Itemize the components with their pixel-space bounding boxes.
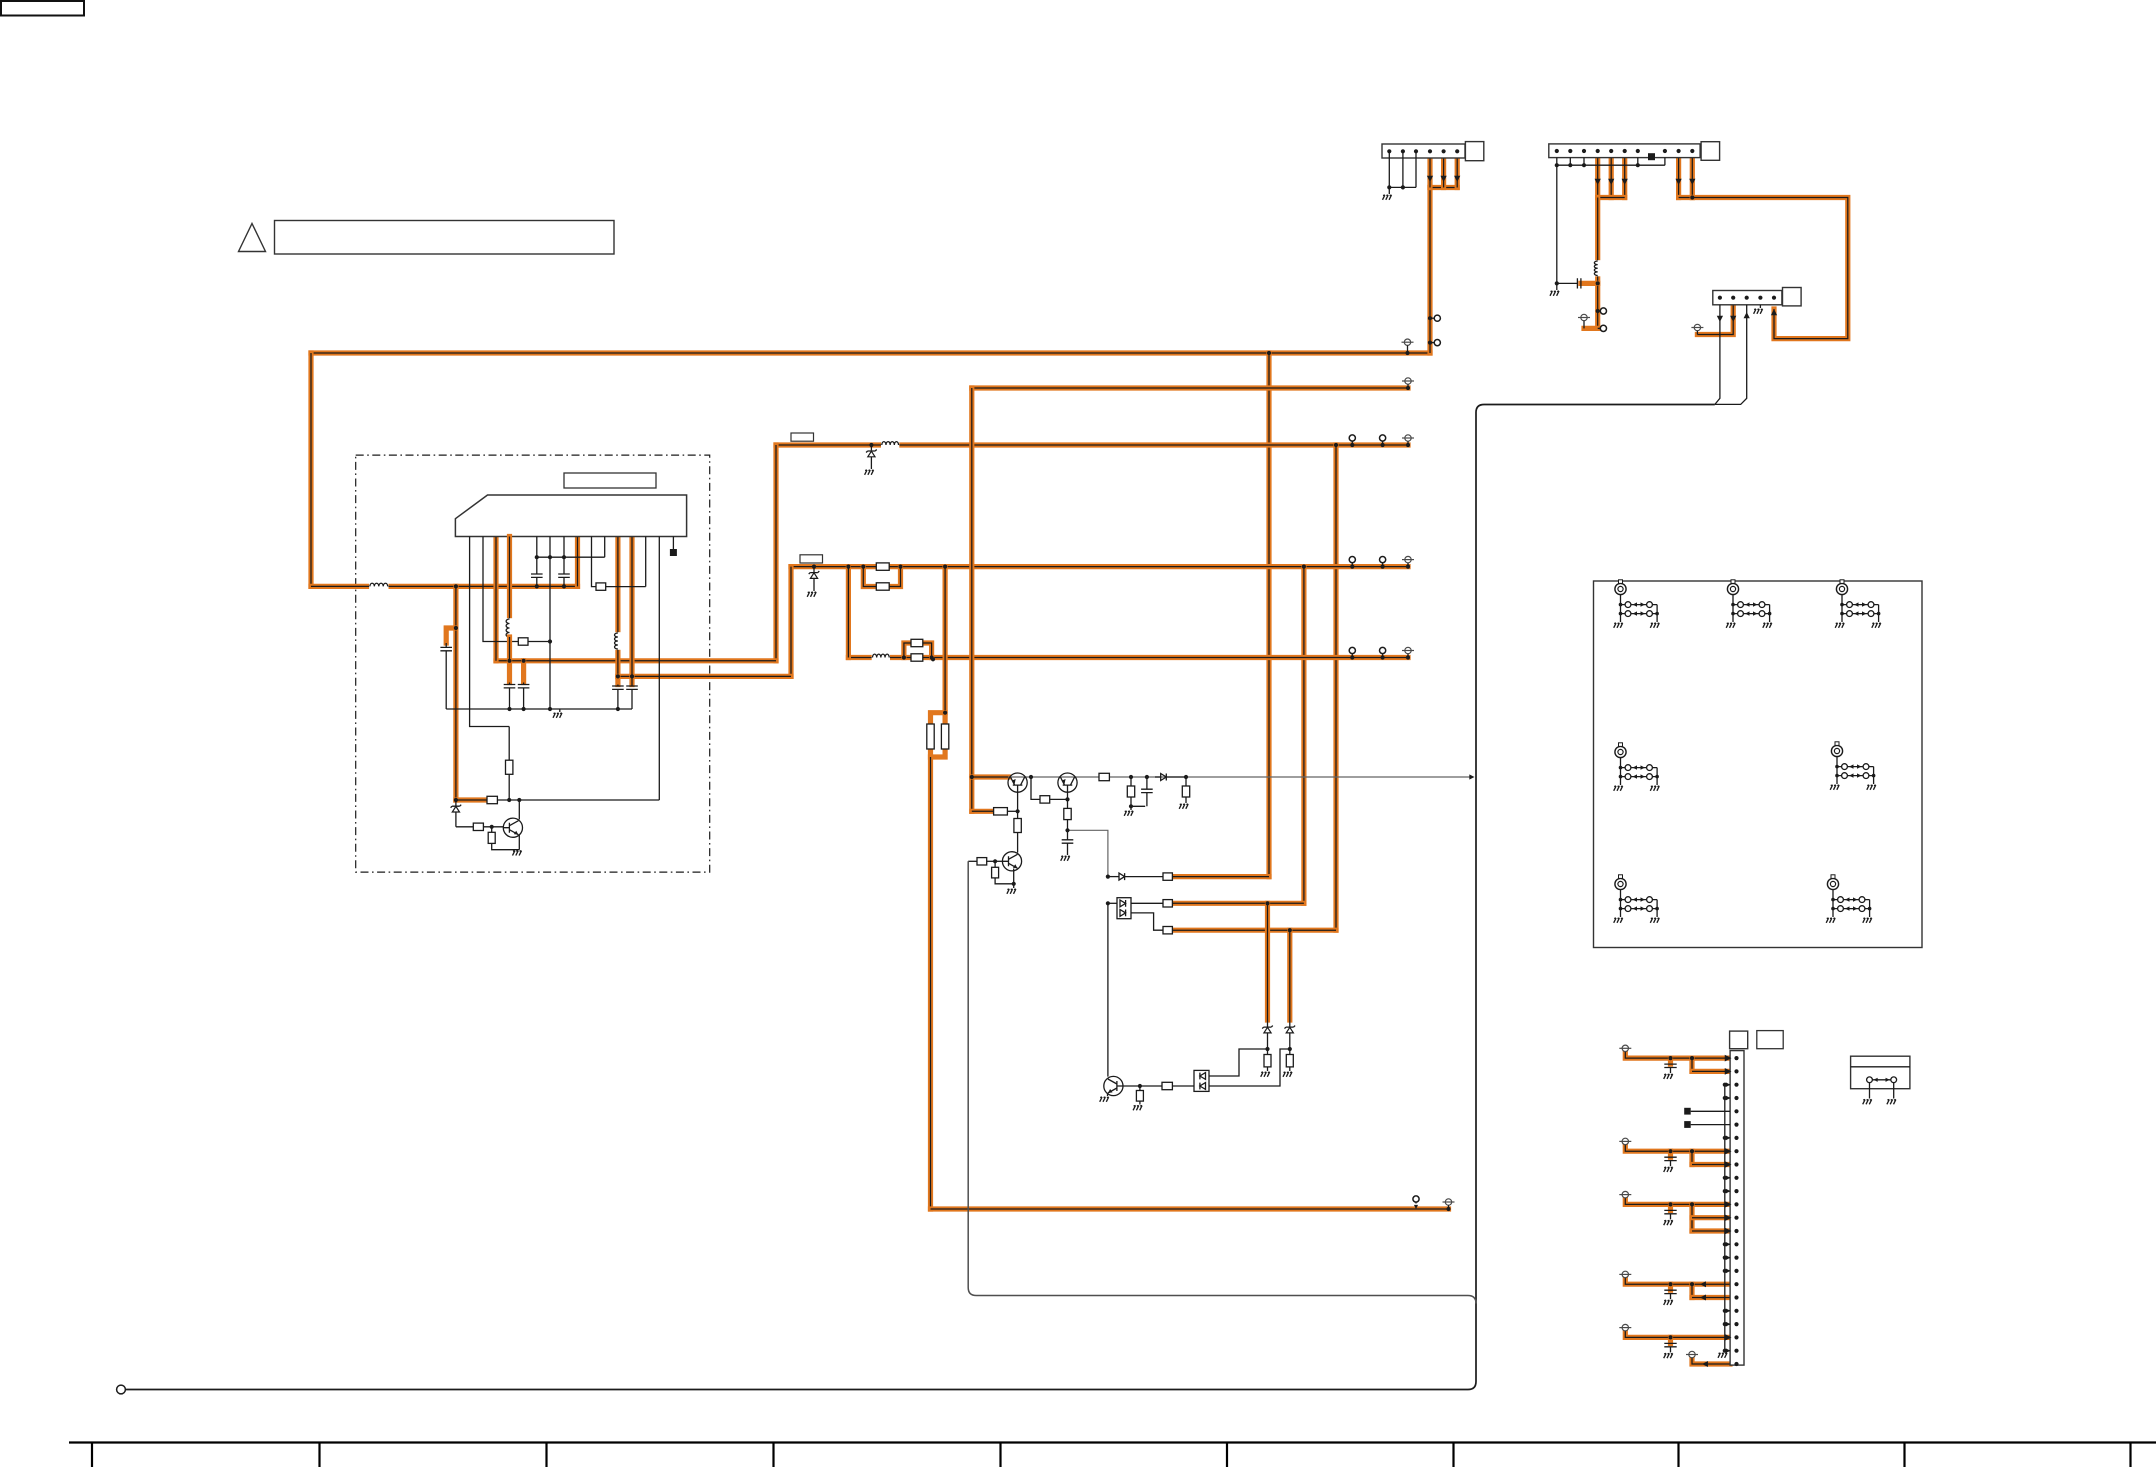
- cap C-b1: [617, 685, 619, 687]
- wire CN4 group4 cap stub: [1668, 1284, 1673, 1290]
- IC pin9 wire: [592, 537, 597, 587]
- transistor Q5: [1002, 852, 1021, 871]
- bottom title-block ticks: [92, 1443, 2131, 1467]
- resistor R-z2: [1289, 1049, 1291, 1055]
- resistor R-s2: [1163, 900, 1172, 907]
- wire CN4 group3 cap stub: [1668, 1204, 1673, 1210]
- wire stub3 resistor link: [1172, 928, 1336, 933]
- dashed outline of regulator module: [356, 455, 710, 872]
- wire CN4 group2 stub: [1692, 1162, 1730, 1167]
- IC pin4 wire: [507, 537, 512, 620]
- wire net A left drop: [773, 445, 778, 661]
- resistor R-e1: [994, 808, 1008, 815]
- Q2 vert: [1067, 792, 1069, 808]
- cap C-q: [445, 643, 447, 647]
- resistor R-r2: [1130, 777, 1132, 786]
- CN4 group1 branch dot: [1690, 1056, 1694, 1060]
- CN4 group3 arrows: [1725, 1201, 1732, 1208]
- wire stub2 zener drop x1267: [1265, 903, 1270, 1020]
- wire module Q branch jog: [446, 628, 456, 643]
- cap C-b2: [631, 685, 633, 687]
- IC pin14 wire: [658, 537, 660, 801]
- phono jack J5: [1830, 742, 1876, 790]
- zener D-q: [455, 800, 457, 806]
- transistor Q1: [1008, 773, 1027, 792]
- resistor R-q4b: [1139, 1086, 1141, 1091]
- CN3 pin dots: [1718, 296, 1722, 300]
- wire CN2 456 bus: [1598, 195, 1625, 200]
- CN4 group3 branch dot: [1690, 1202, 1694, 1206]
- R-C2 parallel loop: [904, 643, 932, 658]
- wire CN2 pin4 stub: [1595, 158, 1600, 198]
- wire net C main: [848, 655, 1408, 660]
- CN4 group2 arrows: [1725, 1148, 1732, 1155]
- CN2 pin dots: [1555, 149, 1559, 153]
- zener D-A: [870, 445, 872, 450]
- dd1 top out: [1131, 902, 1163, 904]
- CN1 pin dots: [1387, 149, 1391, 153]
- resistor R-q5b: [977, 858, 987, 865]
- CN4 group3 cap: [1668, 1202, 1672, 1206]
- wire IC pin11 orange: [615, 537, 620, 677]
- wire CN2 pin5 stub: [1609, 158, 1614, 198]
- wire CN4 group1 branch: [1689, 1058, 1694, 1071]
- CN4 group1 arrows: [1725, 1055, 1732, 1062]
- CN4 pin dots: [1734, 1056, 1738, 1060]
- coil L-A: [881, 441, 899, 449]
- CN3 pin4 ground: [1759, 305, 1761, 308]
- CN1 gnd pins: [1389, 151, 1416, 187]
- IC pin1 wire: [470, 537, 510, 727]
- SW1 contacts: [1867, 1077, 1873, 1083]
- Q1 vert: [1017, 792, 1019, 818]
- wire net VCC-D left drop: [308, 353, 313, 586]
- wire net A into IC pin3: [496, 658, 776, 663]
- resistor R-q4: [1162, 1082, 1172, 1089]
- resistor R-p1: [508, 727, 510, 761]
- wire net A cap stub a: [507, 661, 512, 683]
- wire Q5 base run: [968, 860, 977, 862]
- CN2 drop terminal: [1578, 314, 1590, 320]
- wire CN4 group3 branch: [1689, 1204, 1694, 1231]
- resistor R-r1: [1099, 773, 1109, 780]
- connector CN2 body: [1549, 144, 1700, 158]
- IC U1 hybrid regulator body: [455, 495, 686, 537]
- CN4 group2 branch dot: [1690, 1149, 1694, 1153]
- wire stub2 resistor link: [1172, 901, 1304, 906]
- test point pair: [1349, 557, 1355, 563]
- wire CN4 group6 feed: [1692, 1358, 1730, 1364]
- CN4 group3 terminal: [1619, 1191, 1631, 1197]
- CN3 return bus end: [117, 1385, 126, 1394]
- wire net H to terminal: [931, 1206, 1449, 1211]
- AV jack panel box: [1594, 581, 1923, 948]
- phono jack J1: [1614, 580, 1660, 628]
- IC pin7 wire: [563, 537, 565, 575]
- CN2 drop junction: [1596, 281, 1600, 285]
- CN2 pin1 drop: [1556, 165, 1558, 283]
- Q4 collector drop: [1107, 903, 1109, 1076]
- wire stub3 zener drop x1289: [1287, 930, 1292, 1020]
- CN2 pin arrows: [1595, 179, 1601, 185]
- CN4 group6 arrow: [1702, 1361, 1708, 1367]
- wire net B cap stub a: [615, 676, 620, 684]
- wire CN4 group3 feed: [1625, 1195, 1730, 1205]
- resistor R-q: [487, 796, 497, 803]
- phono jack J2: [1726, 580, 1772, 628]
- CN1 pin arrows: [1427, 176, 1433, 182]
- resistor R-z1: [1267, 1049, 1269, 1055]
- CN2 drop test points: [1600, 308, 1606, 314]
- wire CN1 pin4 stub: [1427, 158, 1432, 188]
- terminal net E: [1402, 378, 1414, 384]
- diode D-r: [1155, 776, 1161, 778]
- stub1 diode: [1108, 876, 1119, 878]
- IC pin6 wire: [549, 537, 551, 710]
- Q3 base net: [456, 826, 473, 828]
- wire IC pin3 orange: [493, 537, 498, 661]
- wire net E to R emitter: [972, 809, 994, 814]
- wire net B branch down x1304: [1301, 567, 1306, 904]
- SW1 grounds: [1870, 1083, 1894, 1099]
- wire net E to Q1 collector: [972, 774, 1008, 779]
- resistor R-s3: [1163, 927, 1172, 934]
- IC pin15 stub: [672, 537, 674, 550]
- coil L-cn2: [1594, 260, 1602, 276]
- wire CN4 group5 feed: [1625, 1328, 1730, 1338]
- page corner label box: [1, 1, 84, 16]
- wire module Q branch to R: [456, 797, 487, 802]
- module rail ground: [559, 709, 561, 712]
- wire net A main: [776, 442, 1408, 447]
- wire CN2 pin6 stub: [1622, 158, 1627, 198]
- module ground rail: [446, 708, 632, 710]
- coil L-p11: [614, 632, 622, 650]
- cap C-q2: [1067, 830, 1069, 840]
- CN4 group1 terminal: [1619, 1045, 1631, 1051]
- CN3 pin2 arrow: [1730, 316, 1736, 322]
- resistor R-C1 inline: [911, 654, 923, 661]
- wire CN2 drop foot: [1584, 326, 1598, 331]
- double diode DD2: [1194, 1070, 1209, 1091]
- Q2 foot node: [1068, 830, 1108, 876]
- wire net E drop to Q1: [969, 388, 974, 811]
- connector CN1 head: [1465, 142, 1483, 161]
- zener DZ1: [1262, 1026, 1273, 1033]
- resistor R-B1 inline: [876, 563, 889, 570]
- connector CN2 head: [1701, 142, 1720, 161]
- R-B2 parallel loop: [863, 567, 900, 587]
- resistor R-q13: [1014, 819, 1021, 833]
- CN4 group5 terminal: [1619, 1324, 1631, 1330]
- CN2 sub rail: [1557, 158, 1665, 166]
- label box net A: [791, 433, 814, 441]
- wire net B left drop: [788, 567, 793, 677]
- CN2 pin1 ground: [1556, 283, 1558, 290]
- CN2 nc pin marker: [1648, 153, 1655, 160]
- dd2 lower loop: [1209, 1049, 1290, 1086]
- connector CN3 head: [1783, 288, 1802, 306]
- wire CN4 group4 stub: [1692, 1295, 1730, 1300]
- wire CN4 group4 feed: [1625, 1275, 1730, 1285]
- divider resistor boxes: [927, 724, 934, 749]
- resistor R-r3: [1185, 777, 1187, 786]
- CN3 return bus: [126, 405, 1715, 1390]
- cap C-r leads: [1146, 777, 1148, 806]
- CN4 bus ground: [1718, 1353, 1727, 1358]
- Q4 base net: [1123, 1085, 1162, 1087]
- wire net VCC-D into IC: [311, 584, 578, 589]
- net H pointer: [1413, 1196, 1419, 1202]
- wire CN2 cap link: [1581, 281, 1598, 286]
- wire net B into IC pin11: [618, 674, 791, 679]
- CN4 group5 cap: [1668, 1335, 1672, 1339]
- zener D-B: [813, 567, 815, 572]
- IC pin10 wire: [604, 537, 606, 558]
- junction dots module: [454, 584, 458, 588]
- dd2 upper loop: [1209, 1049, 1268, 1076]
- warning triangle: [239, 224, 266, 252]
- wire net VCC-D branch down x1269: [1266, 353, 1271, 877]
- resistor R-q2: [1064, 808, 1071, 819]
- CN3 pin3 wire: [1715, 305, 1747, 405]
- Q3 collector: [518, 800, 520, 820]
- CN4 group5 arrows: [1725, 1334, 1732, 1341]
- CN3 pin2 terminal: [1691, 324, 1703, 330]
- wire CN3 pin2 drop: [1697, 305, 1733, 335]
- label box net B: [800, 555, 823, 563]
- wire net E main: [972, 385, 1408, 390]
- IC sub-rail: [537, 556, 605, 558]
- resistor R-p9: [596, 583, 606, 590]
- resistor R-b2: [1040, 796, 1050, 803]
- resistor R-s1: [1163, 873, 1172, 880]
- wire divider feed from net B: [942, 567, 947, 713]
- wire module Q branch drop: [453, 586, 458, 800]
- CN4 group2 cap: [1668, 1149, 1672, 1153]
- terminal net D: [1402, 339, 1414, 345]
- resistor R-q5e: [994, 861, 996, 867]
- wire CN2 pin10 stub: [1676, 158, 1681, 198]
- wire net VCC-D CN1 pin bus: [1430, 185, 1457, 190]
- cap C-a2: [523, 683, 525, 685]
- wire net VCC-D pin8 riser: [575, 537, 580, 587]
- cap C-r: [1141, 789, 1153, 792]
- CN4 group4 terminal: [1619, 1271, 1631, 1277]
- CN4 ground bus: [1724, 1085, 1726, 1351]
- wire CN4 group5 cap stub: [1668, 1337, 1673, 1343]
- transistor Q3: [503, 818, 522, 837]
- dd box1 feed: [1108, 902, 1117, 904]
- wire net B main: [791, 564, 1408, 569]
- dd1 bottom out: [1131, 913, 1163, 930]
- coil L-D: [369, 582, 388, 590]
- CN4 group4 arrows: [1700, 1281, 1706, 1287]
- IC pin2 wire: [483, 537, 518, 642]
- test point pair: [1349, 647, 1355, 653]
- CN4 group6 terminal: [1686, 1351, 1698, 1357]
- connector CN4 label box: [1757, 1031, 1783, 1049]
- wire CN4 group2 branch: [1689, 1151, 1694, 1164]
- transistor Q4: [1104, 1076, 1123, 1095]
- wire Q1 Q2 rail: [1008, 776, 1471, 778]
- CN4 group4 branch dot: [1690, 1282, 1694, 1286]
- CN4 group2 terminal: [1619, 1138, 1631, 1144]
- wire net VCC-D CN1 riser: [1427, 188, 1432, 354]
- Q4 emitter ground: [1107, 1094, 1109, 1097]
- test points net D riser: [1434, 315, 1440, 321]
- phono jack J7: [1826, 875, 1872, 923]
- terminal symbol: [1402, 647, 1414, 653]
- resistor R-p2: [518, 638, 528, 645]
- cap C-a1: [509, 683, 511, 685]
- wire CN1 pin6 stub: [1455, 158, 1460, 188]
- CN4 group1 cap: [1668, 1056, 1672, 1060]
- wire CN4 group4 branch: [1689, 1284, 1694, 1297]
- wire CN1 pin5 stub: [1441, 158, 1446, 188]
- CN4 group4 cap: [1668, 1282, 1672, 1286]
- wire CN4 group3 stub: [1692, 1228, 1730, 1233]
- CN3 pin5 arrow: [1771, 309, 1777, 315]
- coil L-C: [872, 654, 890, 662]
- wire net A branch down x1336: [1333, 445, 1338, 930]
- wire net VCC-D main: [311, 350, 1430, 355]
- zener DZ2: [1285, 1026, 1296, 1033]
- wire CN2 1011 bus: [1679, 195, 1693, 200]
- connector CN4 head: [1730, 1031, 1748, 1049]
- wire CN4 group1 stub: [1692, 1069, 1730, 1074]
- wire CN2 pin11 stub: [1690, 158, 1695, 198]
- wire IC pin12 orange: [629, 537, 634, 685]
- wire fb drop: [968, 861, 1476, 1303]
- switch box SW1: [1851, 1056, 1910, 1089]
- wire stub1 to diode resistor: [1172, 874, 1269, 879]
- terminal symbol: [1402, 556, 1414, 562]
- wire CN4 group2 feed: [1625, 1142, 1730, 1152]
- wire CN2 drop x1597: [1595, 198, 1600, 329]
- Q5 emitter ground: [1013, 869, 1015, 889]
- wire net A cap stub b: [521, 661, 526, 683]
- wire CN4 group2 cap stub: [1668, 1151, 1673, 1157]
- Q3 emitter ground: [518, 835, 520, 850]
- connector CN3 body: [1713, 291, 1782, 305]
- wire CN4 group1 feed: [1625, 1049, 1730, 1059]
- bottom title-block rule: [69, 1441, 2156, 1443]
- phono jack J3: [1835, 580, 1881, 628]
- double diode DD1: [1117, 898, 1131, 919]
- wire divider pair frame: [931, 713, 946, 757]
- IC pin13 wire: [645, 537, 647, 587]
- terminal symbol: [1402, 435, 1414, 441]
- node gnd r: [1130, 806, 1132, 810]
- cap C-cn2: [1557, 282, 1578, 284]
- IC U1 label box: [564, 473, 656, 488]
- phono jack J6: [1614, 875, 1660, 923]
- CN3 pin1 wire: [1715, 305, 1720, 405]
- test point pair: [1349, 435, 1355, 441]
- transistor Q2: [1058, 773, 1077, 792]
- CN4 nc squares: [1684, 1108, 1691, 1115]
- Q1 Q2 base link: [1031, 777, 1040, 799]
- wire CN4 group3 stub: [1692, 1215, 1730, 1220]
- connector CN1 body: [1382, 144, 1465, 158]
- node n1: [1129, 775, 1133, 779]
- wire divider tail to net H: [928, 757, 933, 1209]
- wire CN4 group1 cap stub: [1668, 1058, 1673, 1064]
- wire CN2 to CN3 loop: [1692, 198, 1848, 339]
- resistor R-q3b: [491, 827, 493, 833]
- IC pin5 wire: [536, 537, 538, 575]
- connector CN4 body: [1730, 1051, 1744, 1366]
- wire net C feed from net B: [846, 567, 851, 658]
- warning note box: [275, 221, 615, 255]
- junction net dots: [846, 565, 850, 569]
- phono jack J4: [1614, 743, 1660, 791]
